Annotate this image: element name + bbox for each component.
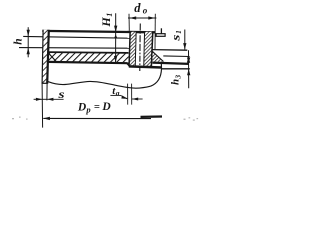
svg-text:d: d [134,1,141,15]
svg-text:H: H [99,17,113,28]
svg-text:h: h [169,79,181,85]
svg-text:s: s [57,87,65,101]
svg-text:o: o [143,5,148,15]
svg-text:=: = [94,102,100,113]
svg-text:3: 3 [173,75,182,80]
svg-text:D: D [77,101,87,113]
svg-text:D: D [101,101,111,113]
svg-text:h: h [13,38,25,44]
svg-text:1: 1 [105,13,114,17]
svg-text:a: a [116,89,120,98]
svg-text:p: p [85,105,90,115]
svg-text:1: 1 [174,30,183,34]
svg-text:s: s [168,34,182,42]
